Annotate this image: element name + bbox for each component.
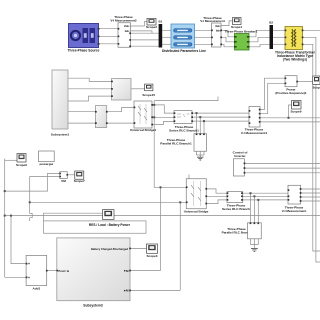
svg-text:+: + <box>28 276 30 280</box>
wire transformer out C down right edge <box>303 44 320 251</box>
svg-text:VM: VM <box>61 179 66 183</box>
wire long bottom bus <box>5 215 320 217</box>
svg-text:Scope7: Scope7 <box>74 179 85 183</box>
wire scope9 branch <box>289 105 292 118</box>
svg-text:Scope15: Scope15 <box>142 93 155 97</box>
svg-text:Three-Phase Breaker1: Three-Phase Breaker1 <box>225 30 258 34</box>
three-phase VI measurement2 <box>110 15 137 47</box>
wire parallel RLC1 riser b <box>199 117 201 134</box>
wire RES scope feed <box>44 213 103 221</box>
wire VI meas out 1 <box>301 188 320 190</box>
scope top right <box>312 76 320 89</box>
wire bridge2 out C to series RLC <box>206 200 227 204</box>
subsystem block B <box>111 79 131 101</box>
wire battery minus drop <box>179 202 181 290</box>
wire DC minus rail <box>30 201 187 203</box>
wire DC top rail <box>154 97 218 101</box>
wire VM to scope7 <box>67 174 75 176</box>
three-phase parallel RLC branch1 <box>160 133 206 151</box>
wire series RLC1 to VI meas1 c <box>192 120 249 122</box>
wire parallel RLC riser c <box>257 200 259 223</box>
svg-text:powergui: powergui <box>40 162 54 166</box>
wire series RLC1 to VI meas1 b <box>192 116 249 118</box>
wire VI meas c to breaker <box>221 44 235 47</box>
svg-text:Parallel RLC Branch1: Parallel RLC Branch1 <box>160 141 192 145</box>
wire breaker to bus B2 row B <box>249 37 270 42</box>
scope RES feed <box>103 210 115 220</box>
wire series RLC1 to VI meas1 a <box>192 112 249 114</box>
wire B2 to transformer row C <box>273 43 285 45</box>
wire subsystem M1 <box>130 270 161 272</box>
svg-text:+: + <box>28 262 30 266</box>
wire VM upper link <box>30 175 60 177</box>
svg-text:Parallel RLC Branch: Parallel RLC Branch <box>222 230 252 234</box>
three-phase source <box>68 24 100 53</box>
wire source to VI meas2 row B <box>99 35 119 37</box>
wire parallel RLC1 riser a <box>196 113 198 134</box>
svg-text:Three-Phase Source: Three-Phase Source <box>68 49 100 53</box>
wire subsystem M2 <box>130 289 180 291</box>
wire B1 to line row B <box>162 36 171 38</box>
wire source to VI meas2 row A <box>99 28 119 30</box>
wire control out1 <box>244 162 320 164</box>
svg-text:Scope3: Scope3 <box>146 254 157 258</box>
wire VI meas out 2 <box>301 192 320 194</box>
wire bridge1 out1 to series RLC1 <box>152 105 174 113</box>
wire power block to scope <box>297 81 313 83</box>
three-phase series RLC branch1 <box>169 111 199 133</box>
wire parallel RLC riser a <box>250 193 252 223</box>
subsystem block C <box>95 106 108 128</box>
three-phase parallel RLC branch bottom <box>222 222 262 238</box>
wire scope6 branch <box>5 159 19 161</box>
wire VI meas2 c to bus B1 <box>131 45 159 47</box>
wire breaker to bus B2 row C <box>249 44 270 47</box>
bus B2 <box>269 21 273 49</box>
scope6 <box>16 154 27 167</box>
wire VM lower link <box>5 173 60 191</box>
wire block A out1 to block B in1 <box>68 78 112 81</box>
wire line to VI meas row A <box>195 29 212 31</box>
wire battery plus drop <box>160 187 162 270</box>
svg-text:Scope4: Scope4 <box>231 25 242 29</box>
wire add1 to subsystem <box>47 270 57 272</box>
wire VI meas2 Vabc to Scope2 <box>131 22 148 26</box>
wire VI meas1 Vabc to power block <box>260 78 285 109</box>
three-phase VI measurement bottom <box>282 185 307 213</box>
wire VI meas1 b to right edge <box>260 121 320 123</box>
svg-text:B1: B1 <box>158 20 162 24</box>
three-phase transformer <box>275 27 316 62</box>
wire hop over bus <box>30 214 33 218</box>
three-phase VI measurement1 <box>241 107 268 136</box>
scope4 <box>231 18 242 30</box>
wire left vertical net <box>4 159 6 278</box>
wire VI meas Vabc to Scope4 <box>221 21 233 26</box>
wire transformer out A to right edge <box>303 29 320 31</box>
wire add1 input1 riser <box>11 216 26 264</box>
three-phase VI measurement <box>200 16 225 47</box>
wire series RLC to VI meas row c <box>243 199 288 201</box>
svg-text:Subsystem1: Subsystem1 <box>51 133 70 137</box>
wire block A out5 to block C in2 <box>68 122 95 124</box>
wire add1 input2 <box>5 276 26 278</box>
ground below parallel RLC1 <box>197 151 205 160</box>
svg-text:Series RLC Branch: Series RLC Branch <box>222 207 250 211</box>
svg-text:Scope6: Scope6 <box>16 163 27 167</box>
wire line to VI meas row C <box>195 43 212 45</box>
svg-text:Universal Bridge: Universal Bridge <box>184 209 209 213</box>
svg-text:Scope: Scope <box>312 85 320 89</box>
wire B2 to transformer row A <box>273 29 285 31</box>
wire bridge2 out B to series RLC <box>206 195 227 197</box>
wire parallel RLC1 riser c <box>203 121 205 134</box>
svg-text:RES / Load : Battery Power: RES / Load : Battery Power <box>89 223 131 227</box>
wire bridge1 out3 to series RLC1 <box>152 121 174 124</box>
wire control out3 <box>244 172 320 174</box>
wire B1 to line row A <box>162 29 171 31</box>
wire VI meas a to breaker <box>221 30 235 37</box>
wire bridge gate stub <box>188 175 190 179</box>
wire DC minus riser VM <box>29 176 31 221</box>
scope15 <box>142 84 155 97</box>
wire control out2 <box>244 167 320 169</box>
wire VI meas out 4 <box>301 200 320 202</box>
svg-text:(Two Windings): (Two Windings) <box>283 58 307 62</box>
wire series RLC to VI meas row a <box>243 192 288 194</box>
wire transformer out B down right edge <box>303 37 320 262</box>
scope7 <box>74 171 85 183</box>
wire VI meas2 a to bus B1 <box>131 32 159 34</box>
wire block A out3 to block B in3 <box>68 96 112 101</box>
distributed parameters line <box>162 24 206 53</box>
ground below parallel RLC <box>251 239 259 252</box>
svg-text:V-I Measurement: V-I Measurement <box>282 209 307 213</box>
annotation box RES Load Battery Power <box>44 221 147 233</box>
wire bridge1 out2 to series RLC1 <box>152 116 174 118</box>
svg-text:Universal Bridge1: Universal Bridge1 <box>130 128 157 132</box>
svg-text:Inverter: Inverter <box>234 154 246 158</box>
VM voltage measurement <box>59 172 68 183</box>
wire VI meas out 3 <box>301 196 320 198</box>
svg-text:Subsystem3: Subsystem3 <box>83 303 103 307</box>
wire B2 to transformer row B <box>273 36 285 38</box>
wire VI meas1 a to right edge <box>260 117 320 119</box>
wire breaker to bus B2 row A <box>249 30 270 37</box>
wire DC plus riser <box>154 101 186 188</box>
scope3 <box>146 244 157 258</box>
control of inverter <box>233 151 249 176</box>
powergui <box>39 151 55 166</box>
wire bridge2 out A to series RLC <box>206 189 227 193</box>
wire block B to Scope15 <box>131 88 145 90</box>
wire series RLC to VI meas row b <box>243 195 288 197</box>
subsystem block A <box>51 70 70 137</box>
svg-text:(Positive-Sequence)1: (Positive-Sequence)1 <box>275 91 307 95</box>
svg-text:V-I Measurement1: V-I Measurement1 <box>241 131 268 135</box>
svg-text:Add1: Add1 <box>33 287 41 291</box>
svg-text:B2: B2 <box>269 21 273 25</box>
wire block A out4 to block C in1 <box>68 111 95 113</box>
wire block C out1 to bridge1 <box>107 107 134 111</box>
wire source to VI meas2 row C <box>99 43 119 45</box>
bus B1 <box>158 20 162 48</box>
svg-text:Battery Charged /Discharged: Battery Charged /Discharged <box>91 247 128 251</box>
wire B1 to line row C <box>162 43 171 45</box>
svg-text:Series RLC Branch1: Series RLC Branch1 <box>169 129 199 133</box>
three-phase breaker1 <box>225 30 258 50</box>
power positive-sequence block <box>275 76 307 95</box>
wire block C out2 to bridge1 <box>107 122 134 124</box>
wire VI meas2 b to bus B1 <box>131 39 159 41</box>
universal bridge1 <box>130 101 157 132</box>
wire VI meas2 Iabc stub <box>131 31 153 33</box>
wire subsystem to scope3 <box>130 247 147 249</box>
subsystem3 battery <box>56 238 130 307</box>
scope9 <box>290 101 301 114</box>
svg-text:Pout= Ia: Pout= Ia <box>59 269 70 273</box>
wire VI meas b to breaker <box>221 37 235 42</box>
svg-text:Vabc: Vabc <box>124 25 130 28</box>
svg-text:V-I Measurement2: V-I Measurement2 <box>110 19 137 23</box>
svg-text:Vabc: Vabc <box>215 26 221 28</box>
svg-text:Scope9: Scope9 <box>290 110 301 114</box>
svg-text:Scope2: Scope2 <box>146 25 157 29</box>
add1 <box>26 255 48 290</box>
scope2 <box>146 18 157 28</box>
wire line to VI meas row B <box>195 36 212 38</box>
wire parallel RLC riser b <box>253 196 255 223</box>
wire VI meas1 Iabc to power block <box>260 83 285 113</box>
universal bridge (inverter) <box>184 179 209 214</box>
svg-text:V-I Measurement: V-I Measurement <box>200 19 225 23</box>
three-phase series RLC branch <box>222 192 250 211</box>
wire block A out2 to block B in2 <box>68 88 112 90</box>
svg-text:Distributed Parameters Line: Distributed Parameters Line <box>162 49 206 53</box>
